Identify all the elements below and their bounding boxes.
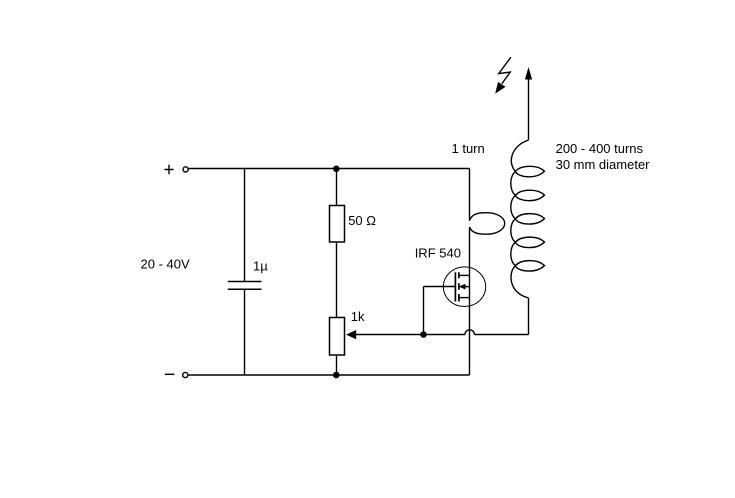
svg-text:1µ: 1µ bbox=[253, 259, 268, 274]
spark lightning bolt bbox=[499, 57, 511, 84]
wire wiper to gate junction bbox=[355, 334, 424, 336]
spark bolt arrowhead bbox=[495, 82, 505, 94]
wire hop over drain line bbox=[465, 330, 474, 335]
transistor Q1 IRF 540 circle bbox=[443, 267, 485, 307]
wire bottom rail from V- to source bbox=[188, 374, 469, 376]
wire gate riser bbox=[423, 287, 425, 335]
transistor Q1 gate bar bbox=[454, 272, 456, 301]
wire drain/source vertical through Q1 bbox=[469, 227, 471, 375]
wire capacitor top lead bbox=[244, 169, 246, 282]
wire hop to secondary bottom corner bbox=[474, 334, 528, 336]
transistor Q1 body lead with arrow bbox=[460, 286, 470, 288]
junction node gate / wiper / feedback bbox=[420, 331, 427, 338]
potentiometer wiper arrowhead bbox=[346, 330, 356, 339]
wire primary top lead bbox=[469, 169, 471, 221]
wire gate lead into Q1 bbox=[424, 286, 456, 288]
svg-text:IRF 540: IRF 540 bbox=[415, 246, 461, 261]
svg-text:1 turn: 1 turn bbox=[452, 141, 485, 156]
terminal V- minus sign bbox=[165, 373, 174, 375]
wire feedback junction to hop bbox=[424, 334, 466, 336]
svg-text:200 - 400 turns: 200 - 400 turns bbox=[556, 141, 644, 156]
transistor Q1 drain contact lead bbox=[459, 274, 470, 276]
junction node bottom rail / potentiometer bbox=[333, 372, 340, 379]
transistor Q1 channel bar segments bbox=[458, 272, 460, 301]
svg-text:50 Ω: 50 Ω bbox=[348, 213, 376, 228]
inductor L1 primary 1 turn loop bbox=[470, 213, 505, 235]
junction node top rail / resistor bbox=[333, 166, 340, 173]
inductor L2 secondary winding bbox=[511, 140, 545, 298]
terminal V- open circle bbox=[183, 372, 188, 377]
svg-text:30 mm diameter: 30 mm diameter bbox=[556, 157, 651, 172]
wire resistor to potentiometer bbox=[336, 242, 338, 318]
wire potentiometer bottom lead bbox=[336, 355, 338, 375]
potentiometer P1 1k body bbox=[330, 318, 345, 356]
transistor Q1 source contact lead bbox=[459, 297, 470, 299]
svg-text:1k: 1k bbox=[351, 309, 365, 324]
wire secondary top lead to arrow bbox=[528, 80, 530, 141]
wire capacitor bottom lead bbox=[244, 289, 246, 375]
terminal V+ plus sign bbox=[164, 165, 173, 174]
svg-text:20 - 40V: 20 - 40V bbox=[141, 257, 190, 272]
wire secondary bottom lead bbox=[528, 298, 530, 335]
resistor R1 50 ohm body bbox=[330, 206, 345, 243]
capacitor C1 plates bbox=[228, 282, 262, 290]
wire top rail from V+ to primary corner bbox=[188, 168, 469, 170]
terminal V+ open circle bbox=[183, 167, 188, 172]
wire resistor top lead bbox=[336, 169, 338, 206]
discharge arrow head bbox=[525, 67, 532, 80]
